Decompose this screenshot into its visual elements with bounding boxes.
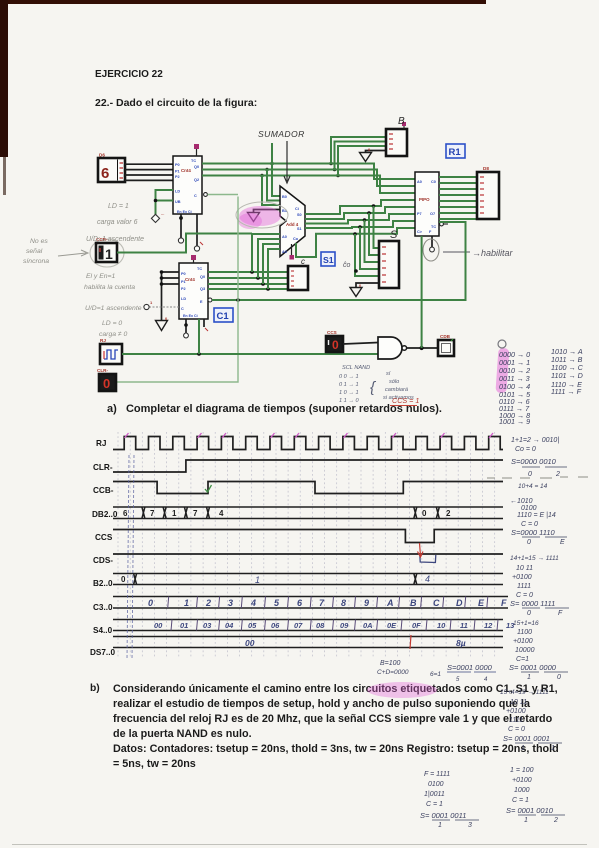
pink highlight on word etiquetados [367,682,437,698]
svg-text:←1010: ←1010 [510,498,533,505]
svg-text:CLR-: CLR- [97,368,108,373]
svg-text:9: 9 [364,598,369,608]
svg-text:C: C [194,194,197,198]
wire connector S ground pin [356,283,379,287]
wire D6 to C4 (4 lines) [125,164,173,180]
svg-text:Q0: Q0 [194,165,199,169]
svg-text:P0: P0 [181,272,186,276]
svg-text:Ci: Ci [295,207,299,211]
svg-text:1|0011: 1|0011 [424,791,445,798]
input CLR- [97,368,116,391]
svg-text:A: A [386,598,394,608]
svg-text:0: 0 [103,376,110,391]
svg-text:03: 03 [203,621,212,630]
svg-text:Cnt4: Cnt4 [181,168,191,173]
wire C1 outputs up to adder A inputs [252,234,280,289]
svg-text:F: F [501,598,507,608]
pencil notes left of counter C4 [86,203,144,243]
svg-text:8µ: 8µ [456,638,466,648]
bottom right handwritten block [506,767,565,824]
switch CCB [90,237,124,267]
svg-text:P1: P1 [175,170,180,174]
signal CCB- [113,482,503,494]
svg-text:10: 10 [437,621,446,630]
svg-text:B: B [410,598,417,608]
wire NAND output to CDB and register clock [407,236,438,350]
label C1 [214,308,233,322]
svg-text:P0: P0 [175,163,180,167]
signal RJ clock [113,437,503,450]
svg-text:00: 00 [154,621,163,630]
svg-text:S=0001 0000: S=0001 0000 [447,663,493,672]
svg-text:7: 7 [193,509,198,518]
svg-text:6: 6 [297,598,303,608]
svg-text:1: 1 [150,300,153,305]
svg-text:E: E [560,539,565,546]
svg-text:4: 4 [425,574,430,584]
svg-text:2: 2 [205,598,211,608]
svg-text:S= 0001 0001: S= 0001 0001 [503,734,550,743]
adder Ci pin stub with red square [291,244,293,256]
bus S4..0 [113,620,515,631]
svg-text:C0: C0 [431,180,436,184]
svg-text:09: 09 [340,621,349,630]
wire S bus down to connector S [355,206,379,276]
svg-text:1110 = E |14: 1110 = E |14 [517,512,556,519]
svg-text:cambiará: cambiará [385,387,408,393]
svg-text:15+4=19 → 1111: 15+4=19 → 1111 [500,689,549,696]
svg-text:10000: 10000 [515,647,535,654]
svg-text:C = 0: C = 0 [521,521,538,528]
svg-text:SUMADOR: SUMADOR [258,129,305,139]
svg-text:07: 07 [294,621,303,630]
input CCS [326,330,343,352]
svg-text:P7: P7 [417,212,422,216]
right margin calc block 5 [500,689,562,752]
connector S [379,241,399,288]
svg-text:1: 1 [184,598,189,608]
svg-text:D8: D8 [483,166,489,171]
svg-text:2: 2 [553,817,558,824]
svg-text:U/D: 1 ascendente: U/D: 1 ascendente [86,236,144,243]
svg-text:U/D=1 ascendente: U/D=1 ascendente [85,305,142,312]
wire adder outputs S/Co to register [296,200,415,257]
NAND gate [378,337,407,359]
svg-text:síncrona: síncrona [23,258,49,265]
svg-text:{: { [370,379,377,396]
svg-text:12: 12 [484,621,493,630]
svg-text:C>: C> [417,230,423,234]
register enable stub circled [423,236,439,261]
svg-text:E: E [478,598,485,608]
svg-text:CCB-: CCB- [93,486,114,495]
svg-text:Q2: Q2 [194,178,199,182]
svg-text:1111: 1111 [509,717,523,724]
svg-text:10 11: 10 11 [510,699,527,706]
pencil note no es senal sincrona [23,238,88,265]
timing grid dashed verticals [118,432,495,658]
counter C1 left open pin [144,300,179,310]
bus DS7..0 [113,635,503,649]
svg-text:ĉo: ĉo [343,262,351,269]
svg-text:B: B [398,116,405,127]
label S1 [321,252,335,266]
svg-text:+0100: +0100 [512,777,532,784]
svg-text:01: 01 [180,621,188,630]
svg-text:D: D [456,598,463,608]
svg-text:1 1 → 0: 1 1 → 0 [339,398,359,404]
svg-text:3: 3 [468,822,472,829]
svg-text:11: 11 [460,621,468,630]
svg-text:UB: UB [175,200,181,204]
svg-text:1111: 1111 [517,583,531,590]
handwritten CCS=1 red underline [390,396,419,406]
svg-text:C1: C1 [217,311,230,322]
svg-text:señal: señal [26,248,43,255]
connector B [386,122,407,156]
wire bus B2..0 from C4 to register [202,164,415,194]
svg-text:06: 06 [271,621,280,630]
svg-text:S0: S0 [297,213,302,217]
svg-text:3: 3 [228,598,233,608]
svg-text:Add 4: Add 4 [286,222,299,227]
svg-text:0: 0 [528,471,532,478]
svg-text:+0100: +0100 [512,574,532,581]
svg-text:1: 1 [524,817,528,824]
handwritten habilitar note [443,248,514,258]
svg-text:CCS = 1: CCS = 1 [392,396,419,405]
svg-text:S= 0001 0011: S= 0001 0011 [420,811,466,820]
svg-text:CCS: CCS [327,330,337,335]
svg-text:TC: TC [431,225,436,229]
svg-text:2: 2 [555,471,560,478]
svg-text:F = 1111: F = 1111 [424,771,450,778]
signal CCS [113,530,503,543]
svg-text:6: 6 [123,509,128,518]
node taps of S bus [353,204,375,236]
svg-text:B=100: B=100 [380,660,401,667]
svg-text:El y En=1: El y En=1 [86,273,116,280]
svg-text:En Ex Ci: En Ex Ci [177,210,192,214]
svg-text:0E: 0E [387,621,397,630]
ground near connector B [360,153,372,162]
svg-text:C: C [433,598,440,608]
svg-text:1: 1 [255,575,260,585]
svg-text:2: 2 [446,509,451,518]
wire taps to adder B inputs [262,164,280,206]
svg-text:7: 7 [319,598,325,608]
wire RJ clock line [122,319,378,356]
svg-text:A3: A3 [282,250,287,254]
svg-text:A0: A0 [282,235,287,239]
svg-text:4: 4 [219,509,224,518]
right margin binary list column A with highlighter [495,340,531,426]
printed title [95,69,163,80]
display D6 [98,153,125,183]
svg-text:S1: S1 [297,227,302,231]
adder U1 (Add 4) [280,186,305,257]
scan border bottom faint [12,844,587,845]
svg-text:O7: O7 [430,212,435,216]
svg-text:1 0 → 1: 1 0 → 1 [339,390,359,396]
bus DB2..0 [113,507,503,519]
wire adder B3 to ground [254,210,281,213]
svg-text:S4..0: S4..0 [93,626,113,635]
question b paragraph [90,683,100,694]
svg-text:1001 → 9: 1001 → 9 [499,417,530,426]
svg-text:4: 4 [484,677,488,683]
svg-text:sí: sí [386,371,391,377]
svg-text:1 = 100: 1 = 100 [510,767,534,774]
right margin calc block 2 [510,483,567,546]
svg-text:14+1=15 → 1111: 14+1=15 → 1111 [510,555,559,562]
svg-text:0: 0 [121,575,126,584]
wire C1 P inputs tied to ground [162,272,180,320]
svg-text:F: F [558,610,563,617]
handwritten blue dashed guide lines left [127,455,134,660]
svg-text:CDB: CDB [440,334,451,339]
svg-text:C=1: C=1 [516,656,529,663]
svg-text:1: 1 [105,246,113,262]
svg-text:0A: 0A [363,621,373,630]
svg-text:4: 4 [250,598,256,608]
counter C4 (top) [173,144,202,214]
svg-text:Co = 0: Co = 0 [515,446,536,453]
register R1 (PIPO) [415,172,448,236]
wire connector B ground pin [366,151,387,153]
svg-text:0: 0 [332,338,339,352]
svg-text:15+1=16: 15+1=16 [513,620,539,627]
scan border top [0,0,486,4]
svg-text:0 0 → 1: 0 0 → 1 [339,374,359,380]
svg-text:LD: LD [181,297,186,301]
svg-text:00: 00 [245,638,255,648]
svg-text:RJ: RJ [100,338,106,343]
svg-text:0: 0 [527,539,531,546]
right margin calc block 4 [509,620,568,681]
handwritten red arrow at CCS/CDS [418,543,424,557]
signal CDS- [113,553,503,555]
counter C1 bottom stubs [183,319,208,339]
svg-text:No es: No es [30,238,48,245]
handwritten magenta ticks on clock edges [125,433,494,438]
right margin calc block 1 [487,437,588,478]
wire C1 outputs to connector C and adder A [208,272,288,289]
svg-text:0100: 0100 [428,781,444,788]
wire register EN from C1 TC [208,222,466,302]
svg-text:Cnt4: Cnt4 [185,277,195,282]
svg-text:S= 0000 1111: S= 0000 1111 [510,599,555,608]
svg-text:LD = 1: LD = 1 [108,203,129,210]
svg-text:1: 1 [172,509,177,518]
svg-text:1: 1 [527,674,531,681]
svg-text:+0100: +0100 [513,638,533,645]
svg-text:RJ: RJ [96,439,106,448]
svg-text:TC: TC [197,267,202,271]
svg-text:C3..0: C3..0 [93,603,113,612]
ground below C1 P inputs [156,321,168,331]
svg-text:B2..0: B2..0 [93,579,113,588]
pencil notes left of counter C1 [84,273,142,338]
wire CLR to counters [116,193,238,382]
svg-text:→habilitar: →habilitar [472,248,514,258]
svg-text:En Ex Ci: En Ex Ci [183,314,198,318]
counter C1 [179,255,208,319]
svg-text:D6: D6 [99,153,105,158]
bus C3..0 [113,597,508,609]
handwritten CDS pulse [420,555,436,563]
svg-text:1: 1 [438,822,442,829]
svg-text:+0100: +0100 [506,708,526,715]
question a [107,403,442,415]
highlighter blob on adder B3 ground [236,202,288,229]
ground at adder B3 [248,213,260,222]
svg-text:CDS-: CDS- [93,556,113,565]
svg-text:S=0000 1110: S=0000 1110 [511,528,556,537]
svg-text:1: 1 [521,745,525,752]
row labels [90,439,118,657]
svg-text:08: 08 [316,621,325,630]
svg-text:C+D=0000: C+D=0000 [377,669,409,676]
wire taps up to connector B [272,137,386,176]
svg-text:habilita la cuenta: habilita la cuenta [84,284,135,291]
svg-text:S=0000 0010: S=0000 0010 [511,457,557,466]
svg-text:C = 0: C = 0 [508,726,525,733]
svg-text:0: 0 [148,598,153,608]
svg-text:LD: LD [175,190,180,194]
bottom mid handwritten block [420,771,479,829]
svg-text:S1: S1 [323,255,334,265]
counter C4 bottom stubs [178,214,203,251]
label R1 [446,144,465,158]
svg-text:carga ≠ 0: carga ≠ 0 [99,331,128,338]
svg-text:5: 5 [274,598,280,608]
svg-text:TC: TC [191,159,196,163]
svg-text:8: 8 [341,598,346,608]
svg-text:SCL NAND: SCL NAND [342,365,370,371]
svg-text:C = 0: C = 0 [516,592,533,599]
svg-text:Q3: Q3 [200,287,205,291]
svg-text:PIPO: PIPO [419,197,430,202]
svg-text:S: S [390,229,398,241]
node bus taps to adder B and connector B [260,162,340,178]
svg-text:6=1: 6=1 [430,671,441,678]
counter C4 load/up stubs [151,190,173,223]
svg-text:0: 0 [557,674,561,681]
svg-text:C = 1: C = 1 [512,797,529,804]
svg-text:DB2..0: DB2..0 [92,510,118,519]
wire CCS to NAND [343,343,378,345]
output CDB [438,334,454,356]
svg-text:c: c [301,257,305,266]
svg-text:LD = 0: LD = 0 [102,320,122,327]
svg-text:A0: A0 [417,180,422,184]
scan border left [0,0,8,157]
svg-text:sólo: sólo [389,379,399,385]
svg-text:6: 6 [101,165,109,182]
svg-text:1100: 1100 [517,629,532,636]
handwritten SUMADOR with arrow [258,129,305,183]
svg-text:0: 0 [527,610,531,617]
svg-text:7: 7 [150,509,155,518]
svg-text:0100: 0100 [521,505,537,512]
svg-text:04: 04 [225,621,234,630]
svg-text:5: 5 [456,677,460,683]
svg-text:1: 1 [551,745,555,752]
svg-text:0: 0 [422,509,427,518]
right margin calc block 3 [510,555,569,617]
svg-text:10+4 = 14: 10+4 = 14 [518,483,548,490]
handwritten notes below timing [377,660,496,683]
svg-text:CCS: CCS [95,533,113,542]
handwritten NAND truth table [339,365,414,404]
wire CCB to adder A0 line [117,234,252,253]
svg-text:CLR-: CLR- [93,463,113,472]
svg-text:1101 → D: 1101 → D [551,371,583,380]
ground below connector S [350,288,362,297]
svg-text:Co: Co [293,237,299,241]
handwritten green check on CCB edge [205,485,212,492]
svg-text:1+1=2 → 0010|: 1+1=2 → 0010| [511,437,559,444]
connector C [288,257,308,290]
svg-text:C: C [181,307,184,311]
display D8 [477,166,499,219]
svg-text:10 11: 10 11 [516,565,533,572]
svg-text:1111 → F: 1111 → F [551,387,582,396]
svg-text:R1: R1 [449,147,462,158]
svg-text:DS7..0: DS7..0 [90,648,115,657]
bus B2..0 [113,574,503,586]
svg-text:0 1 → 1: 0 1 → 1 [339,382,359,388]
svg-text:S= 0001 0000: S= 0001 0000 [509,663,557,672]
svg-text:S= 0001 0010: S= 0001 0010 [506,806,554,815]
svg-text:Q0: Q0 [200,275,205,279]
svg-text:...: ... [161,211,164,216]
svg-text:P2: P2 [175,175,180,179]
right margin binary list column B [551,347,584,396]
svg-text:P2: P2 [181,287,186,291]
wire register outputs to display D8 [439,177,477,219]
clock source RJ [100,338,122,364]
svg-text:0F: 0F [412,621,421,630]
svg-text:1000: 1000 [514,787,530,794]
svg-text:carga valor 6: carga valor 6 [97,219,138,226]
svg-text:C = 1: C = 1 [426,801,443,808]
svg-text:B0: B0 [282,195,287,199]
svg-text:05: 05 [248,621,257,630]
signal CLR- [113,460,503,472]
